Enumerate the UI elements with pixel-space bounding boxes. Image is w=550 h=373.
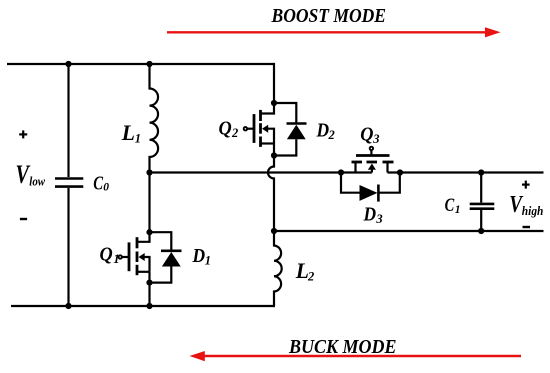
wire output bottom [274,230,544,232]
minus sign V_high [523,226,531,228]
inductor L2 [274,231,282,306]
svg-text:low: low [29,174,45,189]
wire C0 lower lead [67,188,69,306]
svg-text:L: L [121,120,135,145]
wire output top [388,171,544,173]
plus sign V_low [19,130,27,138]
junction dot C1 bottom [478,228,484,234]
svg-text:0: 0 [103,181,109,193]
capacitor C1 [470,204,495,209]
svg-text:Q: Q [219,117,232,139]
junction dot C0 top [65,61,71,67]
buck mode red arrow [190,351,522,361]
svg-text:1: 1 [205,254,211,268]
svg-text:BOOST MODE: BOOST MODE [271,5,386,27]
junction dot L2 top [271,228,277,234]
wire top rail [7,63,274,65]
svg-text:D: D [316,119,330,141]
wire Q2 drain drop [273,63,275,103]
svg-text:2: 2 [307,269,314,283]
junction dot Q1 bottom [146,303,152,309]
junction dot C1 top [478,169,484,175]
diode D2 [274,103,307,156]
wire bottom rail [11,305,275,307]
wire C1 lower lead [480,210,482,231]
junction dot Q2 source [271,152,277,158]
wire C0 upper lead [67,64,69,177]
junction dot Q3 left [338,169,344,175]
svg-text:C: C [445,196,455,216]
wire Q2 source to L2 with crossover hop [268,156,274,232]
wire L1 to Q1 drain [148,173,150,233]
svg-text:1: 1 [455,204,461,216]
svg-text:2: 2 [328,128,335,142]
svg-text:D: D [192,245,206,267]
svg-text:D: D [363,204,377,226]
junction dot Q1 source [146,280,152,286]
wire Q1 source to bottom rail [148,283,150,306]
junction dot L1 top [146,61,152,67]
junction dot Q3 right [397,169,403,175]
transistor Q3 [352,147,394,173]
junction dot L1 bottom [146,169,152,175]
plus sign V_high [522,181,530,189]
diode D3 [341,173,400,202]
svg-text:3: 3 [372,132,379,146]
svg-text:2: 2 [231,126,238,140]
transistor Q2 [244,103,274,156]
minus sign V_low [20,218,27,220]
transistor Q1 [119,232,150,282]
svg-text:BUCK MODE: BUCK MODE [288,336,396,358]
svg-text:L: L [295,258,309,283]
svg-text:Q: Q [100,243,113,265]
svg-text:1: 1 [135,131,141,145]
capacitor C0 [55,179,83,187]
diode D1 [150,232,182,282]
svg-text:Q: Q [360,123,373,145]
junction dot C0 bottom [65,303,71,309]
svg-text:high: high [522,203,544,218]
wire middle node [150,171,372,173]
junction dot Q2 drain [271,100,277,106]
svg-text:3: 3 [375,212,382,226]
inductor L1 [150,64,159,173]
svg-text:C: C [93,173,104,194]
svg-text:1: 1 [113,252,119,266]
boost mode red arrow [167,27,501,37]
junction dot Q1 drain [146,229,152,235]
wire C1 upper lead [480,173,482,203]
